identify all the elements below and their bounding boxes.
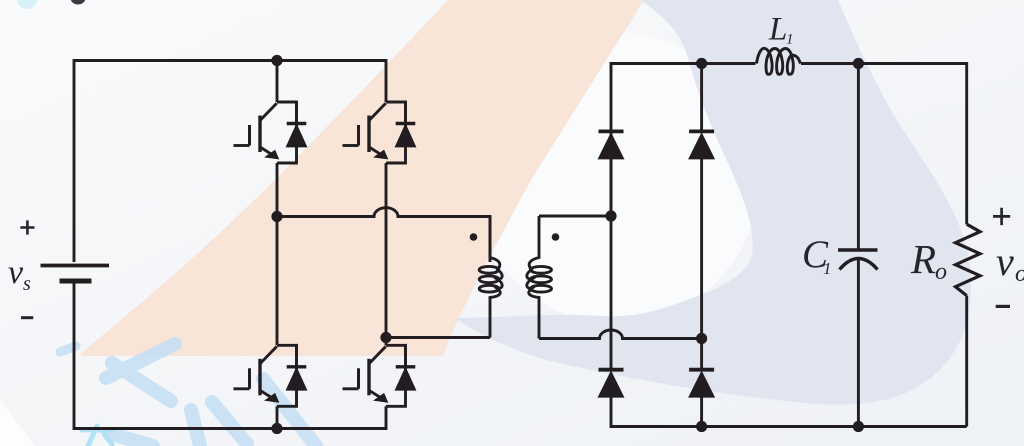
watermark whiter corner wedge xyxy=(0,400,35,446)
node bottom-left xyxy=(271,423,282,434)
wire right rail lower xyxy=(965,296,968,427)
wire leg A middle xyxy=(276,163,279,345)
transformer polarity dot primary xyxy=(470,233,478,241)
watermark glyph strokes xyxy=(60,344,316,446)
transformer T1 primary winding xyxy=(490,217,502,338)
wire: left rail lower + bottom bus + Q4 emitter lead xyxy=(74,283,386,429)
label + (Vs positive) xyxy=(20,220,34,234)
capacitor C1 lower lead xyxy=(857,260,860,427)
node primary bottom xyxy=(380,332,391,343)
watermark peach shape xyxy=(78,0,644,356)
wire rectifier leg C upper xyxy=(611,64,756,217)
svg-text:1: 1 xyxy=(786,32,794,48)
watermark blue swoosh xyxy=(455,0,971,405)
node secondary top xyxy=(605,210,616,221)
svg-text:R: R xyxy=(910,236,936,282)
watermark white pocket xyxy=(473,32,759,324)
watermark small glyphs xyxy=(82,426,112,446)
watermark dark blob xyxy=(71,0,86,5)
capacitor C1 upper lead xyxy=(857,64,860,249)
node junction top-left xyxy=(271,55,282,66)
transformer T1 secondary winding xyxy=(527,216,539,339)
node primary top xyxy=(271,211,282,222)
svg-text:s: s xyxy=(23,273,31,295)
IGBT Q3 xyxy=(234,345,307,406)
svg-text:v: v xyxy=(8,254,24,291)
wire leg B middle xyxy=(385,163,388,345)
wire rectifier leg D lower xyxy=(700,397,703,427)
svg-text:o: o xyxy=(1015,261,1024,287)
svg-text:o: o xyxy=(935,259,947,285)
voltage source Vs battery xyxy=(41,264,110,268)
diode D4 xyxy=(689,370,714,397)
IGBT Q1 xyxy=(234,102,307,163)
wire top right after inductor xyxy=(801,64,967,225)
inductor L1 xyxy=(757,48,801,74)
node secondary bottom xyxy=(696,333,707,344)
node rectifier bottom xyxy=(696,421,707,432)
wire secondary top xyxy=(539,215,611,218)
wire leg A lower xyxy=(276,406,279,428)
svg-text:v: v xyxy=(996,239,1014,284)
IGBT Q4 xyxy=(343,345,416,406)
wire rectifier leg C lower xyxy=(611,397,967,427)
wire leg A upper xyxy=(276,61,279,103)
wire: left rail upper + top bus + Q2 collector lead xyxy=(74,61,386,263)
svg-text:L: L xyxy=(768,12,787,48)
label + (vo positive) xyxy=(993,208,1010,225)
node rectifier top xyxy=(696,58,707,69)
wire secondary bottom with hop over rectifier leg C xyxy=(539,330,702,339)
wire rectifier leg C middle xyxy=(610,159,613,370)
node filter top xyxy=(853,58,864,69)
watermark cyan ellipse xyxy=(17,0,37,9)
node filter bottom xyxy=(853,421,864,432)
IGBT Q2 xyxy=(343,102,416,163)
wire rectifier leg D upper xyxy=(700,64,703,132)
label - (Vs negative) xyxy=(21,316,33,319)
diode D1 xyxy=(599,131,624,158)
label - (vo negative) xyxy=(996,305,1010,308)
diode D3 xyxy=(599,370,624,397)
transformer polarity dot secondary xyxy=(552,233,560,241)
diode D2 xyxy=(689,131,714,158)
wire primary bottom xyxy=(386,336,490,339)
capacitor C1 plates xyxy=(838,248,878,251)
svg-text:1: 1 xyxy=(823,259,832,278)
wire rectifier leg D middle xyxy=(700,159,703,370)
resistor Ro zigzag xyxy=(956,224,981,295)
wire primary top with hop over leg B xyxy=(277,208,490,262)
